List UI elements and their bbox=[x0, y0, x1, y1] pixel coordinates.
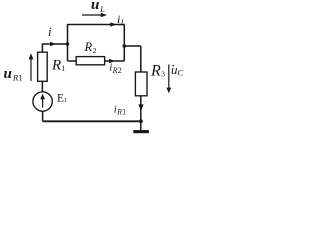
svg-text:i: i bbox=[48, 24, 52, 39]
svg-text:L: L bbox=[120, 18, 126, 27]
svg-text:3: 3 bbox=[161, 70, 165, 79]
svg-text:u: u bbox=[4, 66, 12, 82]
svg-text:u: u bbox=[91, 0, 99, 13]
svg-text:L: L bbox=[99, 5, 105, 14]
svg-text:2: 2 bbox=[118, 66, 122, 75]
svg-text:R: R bbox=[150, 63, 161, 80]
svg-text:C: C bbox=[177, 68, 183, 78]
svg-text:2: 2 bbox=[93, 46, 97, 55]
svg-text:R: R bbox=[84, 40, 93, 54]
svg-text:1: 1 bbox=[122, 108, 126, 117]
svg-text:1: 1 bbox=[64, 97, 67, 104]
svg-text:R: R bbox=[51, 58, 61, 74]
svg-text:1: 1 bbox=[18, 73, 22, 83]
svg-text:1: 1 bbox=[61, 64, 65, 73]
